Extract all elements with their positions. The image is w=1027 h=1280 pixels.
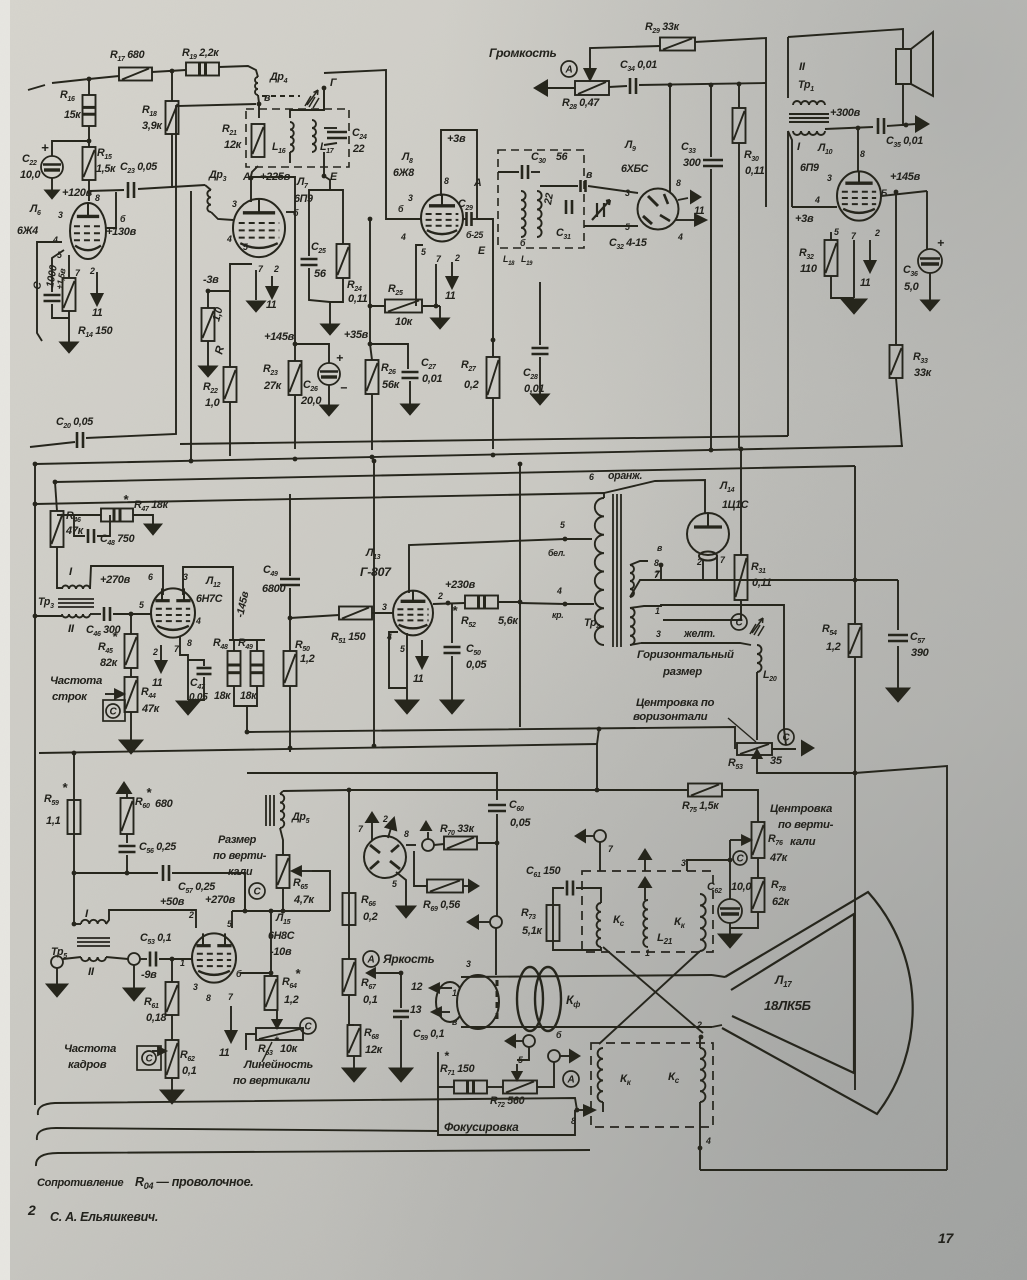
svg-text:1,1: 1,1: [46, 815, 61, 827]
node bus3 left: [33, 502, 38, 507]
capacitor C59: [393, 1011, 409, 1017]
svg-text:по вертикали: по вертикали: [233, 1075, 310, 1087]
wire +3в rail: [792, 206, 837, 208]
svg-text:6Ж8: 6Ж8: [393, 167, 414, 179]
node C33 top: [709, 83, 714, 88]
svg-text:10к: 10к: [395, 316, 414, 328]
transformer Tr1 primary coil: [793, 101, 825, 105]
choke Dr4 coil: [255, 77, 258, 95]
wire top loop II: [788, 29, 903, 49]
wire right outer loop: [855, 766, 947, 1170]
node C59 top: [399, 971, 404, 976]
svg-text:б: б: [120, 214, 126, 224]
wire long L1: [38, 1098, 577, 1115]
svg-text:б: б: [398, 204, 404, 214]
svg-text:C56 0,25: C56 0,25: [139, 841, 177, 855]
node R16/R15: [87, 139, 92, 144]
wire R29 right down: [695, 38, 766, 207]
svg-text:0,18: 0,18: [146, 1012, 167, 1024]
coil L20: [757, 645, 762, 672]
svg-text:3: 3: [382, 602, 387, 612]
capacitor C21: [44, 295, 61, 301]
wire plate loop +3в: [441, 130, 477, 196]
node bus4 x374: [372, 744, 377, 749]
svg-text:воризонтали: воризонтали: [633, 711, 708, 723]
wire C22 to ground: [51, 178, 53, 190]
svg-text:Частота: Частота: [64, 1043, 116, 1055]
wire to R48: [233, 640, 235, 651]
wire V to R21: [258, 104, 260, 118]
wire R67-R68: [349, 995, 354, 1025]
wire Kk lower down: [602, 1102, 604, 1112]
node bus4 R50: [288, 746, 293, 751]
svg-text:56: 56: [556, 151, 568, 163]
wire Dr5 top: [280, 791, 283, 794]
svg-text:2: 2: [382, 814, 388, 824]
wire pin7 down: [716, 556, 718, 580]
wire arrow to term: [427, 832, 429, 839]
svg-text:3: 3: [58, 210, 63, 220]
svg-text:+145в: +145в: [264, 331, 295, 343]
wire C53 term ground: [133, 965, 135, 988]
wire heater line right: [661, 579, 898, 581]
wire C30 right: [531, 171, 540, 173]
wire C48 right: [97, 515, 110, 536]
node pin8 L10: [856, 126, 861, 131]
svg-text:10к: 10к: [280, 1043, 299, 1055]
wire R52 to column: [498, 601, 520, 603]
ground L13: [395, 700, 419, 714]
svg-text:Сопротивление: Сопротивление: [37, 1177, 124, 1189]
wire R21 bottom to A: [251, 166, 258, 176]
wire L17 bottom to E: [323, 152, 325, 176]
wire Tr3 II to left rail: [35, 615, 62, 617]
svg-text:R28 0,47: R28 0,47: [562, 97, 600, 111]
wire term1 left: [512, 1040, 523, 1042]
wire to C28: [539, 282, 541, 345]
wire input stub: [28, 85, 45, 90]
wire term 7 left: [586, 835, 594, 837]
svg-text:4: 4: [400, 232, 406, 242]
wire cross A: [603, 947, 703, 1033]
ground R47: [144, 524, 162, 535]
wire R54 down: [854, 657, 856, 773]
svg-text:8: 8: [654, 558, 659, 568]
svg-text:2: 2: [454, 253, 460, 263]
wire busA: [180, 436, 788, 444]
wire R65 wiper right: [312, 871, 330, 911]
choke Dr5 core: [266, 795, 274, 826]
svg-text:в: в: [586, 169, 593, 181]
arrow pin2 up: [386, 818, 397, 838]
resistor R67: [343, 959, 356, 995]
capacitor C22: [41, 156, 63, 178]
arrow onto R63: [273, 1010, 282, 1028]
wire loop left down: [787, 37, 789, 98]
circle C hcenter: [778, 729, 794, 745]
ground C57: [886, 688, 910, 702]
arrowhead right C35: [915, 115, 930, 133]
wire focus box: [438, 1052, 575, 1135]
circle C vcenter: [733, 851, 747, 865]
wire C62 ground: [729, 923, 731, 934]
wire R26 to bus: [371, 394, 373, 450]
resistor R68: [348, 1025, 361, 1056]
svg-text:1: 1: [645, 948, 650, 958]
CRT tube L17 18ЛК5Б: [722, 892, 913, 1114]
svg-text:C23 0,05: C23 0,05: [120, 161, 158, 175]
transformer Tr3 primary coil: [62, 586, 90, 590]
arrow pin13: [432, 1008, 450, 1017]
wire term1 down: [517, 1047, 529, 1060]
node bus2 x374: [372, 459, 377, 464]
wire pin3 plate loop: [183, 567, 233, 640]
svg-text:18к: 18к: [214, 690, 231, 702]
wire +270в to pin6: [90, 566, 163, 595]
svg-text:11: 11: [266, 299, 277, 311]
svg-text:R29 33к: R29 33к: [645, 21, 680, 35]
node R27 top: [491, 338, 496, 343]
capacitor C26: [318, 363, 340, 385]
svg-text:12к: 12к: [224, 139, 243, 151]
wire pin5 to R65: [232, 910, 330, 912]
coil Kc lower: [700, 1048, 705, 1102]
svg-text:82к: 82к: [100, 657, 119, 669]
wire loop to circle: [784, 729, 786, 745]
svg-text:6: 6: [589, 472, 594, 482]
wire bus1: [35, 446, 903, 464]
svg-text:0,2: 0,2: [464, 379, 479, 391]
wire to C57cap: [74, 872, 158, 874]
svg-text:Г: Г: [330, 77, 337, 89]
ground arrow L9: [690, 190, 702, 205]
resistor R14: [63, 278, 76, 311]
circle C vsize: [249, 883, 265, 899]
svg-text:1,2: 1,2: [300, 653, 315, 665]
node bus1 R30: [739, 447, 744, 452]
wire I winding right: [825, 127, 873, 129]
wire C57 down to pin5: [244, 873, 246, 911]
transformer Tr4 primary coil: [595, 498, 604, 645]
capacitor C48: [88, 529, 94, 543]
ground C62: [718, 934, 742, 948]
resistor R47: [101, 509, 133, 522]
wire C34 to right: [639, 83, 766, 85]
wire I winding left down: [788, 131, 792, 207]
capacitor C61: [567, 881, 573, 896]
svg-text:С: С: [254, 887, 262, 898]
ground C36: [921, 300, 940, 311]
svg-text:Центровка: Центровка: [770, 803, 832, 815]
resistor R63 potentiometer: [256, 1028, 303, 1040]
wire R65 bottom: [282, 888, 284, 911]
node R61 top: [170, 957, 175, 962]
arrowhead yoke anode 2: [638, 876, 653, 888]
coil L21: [643, 900, 648, 947]
resistor R53 potentiometer: [737, 743, 772, 755]
wire to ground L8: [439, 306, 441, 318]
wire -3в to L7: [208, 264, 252, 291]
wire to R47: [57, 514, 101, 516]
svg-text:Е: Е: [330, 171, 338, 183]
node 4 yoke: [698, 1146, 703, 1151]
terminal CRT 2: [548, 1050, 560, 1062]
svg-text:4: 4: [814, 195, 820, 205]
ground L8 cathode: [431, 318, 450, 329]
wire C60 down: [496, 814, 498, 916]
wire to C60: [247, 773, 497, 800]
resistor R54: [849, 624, 862, 657]
ground R62: [160, 1090, 184, 1104]
svg-text:C53 0,1: C53 0,1: [140, 932, 172, 946]
wire pin5 up: [231, 911, 233, 928]
wire C33 top: [710, 85, 712, 157]
svg-text:11: 11: [860, 277, 871, 289]
svg-text:кр.: кр.: [552, 610, 563, 620]
wire L16 top: [290, 110, 312, 118]
wire pin b L6 to C23 node: [106, 192, 116, 228]
wire C20 up to node V: [86, 104, 256, 438]
resistor R30: [733, 108, 746, 143]
wire R66-R67: [348, 925, 350, 959]
svg-text:б: б: [556, 1030, 562, 1040]
svg-text:0,05: 0,05: [466, 659, 487, 671]
svg-text:5: 5: [243, 242, 248, 252]
resistor R24: [337, 244, 350, 278]
node 8 yoke: [575, 1108, 580, 1113]
half arrow 8: [583, 1104, 597, 1117]
ground Tr5: [46, 984, 68, 997]
ground E column: [321, 324, 340, 335]
arrowhead R53: [801, 740, 815, 757]
wire A to grid cap L7: [250, 178, 252, 202]
svg-text:0,05: 0,05: [189, 692, 208, 703]
resistor R15: [83, 147, 96, 180]
wire cathode L12: [180, 637, 188, 700]
svg-text:3: 3: [681, 858, 686, 868]
svg-text:4: 4: [556, 586, 562, 596]
svg-text:11: 11: [413, 673, 424, 685]
wire Tr5 I left: [74, 923, 81, 925]
svg-text:5,1к: 5,1к: [522, 925, 543, 937]
wire bus2: [55, 466, 855, 482]
node A: [249, 176, 254, 181]
wire C47 down: [188, 677, 204, 700]
node cathode L8: [434, 304, 439, 309]
svg-text:А: А: [565, 65, 573, 76]
wire G down: [323, 88, 325, 110]
transformer Tr3 secondary coil: [62, 614, 90, 618]
wire pin7 up: [371, 823, 373, 840]
svg-text:R47 18к: R47 18к: [134, 499, 169, 513]
svg-text:2: 2: [27, 1202, 36, 1218]
speaker: [896, 32, 933, 96]
wire neck top: [461, 975, 712, 977]
ground C50: [440, 700, 464, 714]
tube L8 6Ж8: [421, 194, 463, 241]
svg-text:3: 3: [408, 193, 413, 203]
wire wiper R76: [730, 839, 736, 841]
ground L10: [841, 299, 867, 314]
resistor R51: [339, 607, 372, 620]
capacitor C53: [150, 952, 156, 967]
svg-text:А: А: [567, 1075, 575, 1086]
node Tr5 R59: [72, 922, 77, 927]
trimmer arrow symbol hsize: [750, 618, 764, 636]
trimmer capacitor C32: [592, 200, 610, 220]
node mid wire right: [597, 727, 602, 732]
resistor R71: [454, 1081, 487, 1094]
wire pin4 loop L13: [389, 632, 407, 688]
wire to C25: [309, 190, 330, 256]
arrow cathode L10: [865, 240, 876, 272]
wire to R24: [330, 190, 343, 244]
svg-text:4: 4: [195, 616, 201, 626]
wire R63 left: [246, 1034, 256, 1050]
tube L10 6П9: [837, 171, 881, 220]
wire to R16: [88, 79, 90, 95]
capacitor C35: [878, 118, 884, 134]
dashed box horizontal yoke: [582, 871, 713, 952]
wire to C50: [451, 603, 453, 643]
transformer Tr4 winding 8-7: [630, 565, 634, 597]
node bus1 C33: [709, 448, 714, 453]
capacitor C49: [280, 579, 300, 585]
svg-text:2: 2: [437, 591, 443, 601]
transformer Tr5 primary coil: [81, 920, 106, 924]
svg-text:1,0: 1,0: [205, 397, 221, 409]
svg-text:Центровка по: Центровка по: [636, 697, 715, 709]
svg-text:R70 33к: R70 33к: [440, 823, 475, 837]
svg-text:+35в: +35в: [344, 329, 369, 341]
svg-text:5: 5: [625, 222, 630, 232]
svg-text:1: 1: [655, 606, 660, 616]
node +145в: [293, 342, 298, 347]
wire bus to R31: [740, 448, 742, 555]
resistor R49: [251, 651, 264, 686]
svg-text:кадров: кадров: [68, 1059, 107, 1071]
wire terminal left: [477, 921, 490, 923]
ground C53: [123, 988, 145, 1001]
wire R46 to Tr3: [57, 547, 62, 588]
wire Dr5 to R65: [280, 828, 283, 855]
svg-text:11: 11: [152, 677, 163, 689]
wire C61 left: [553, 888, 564, 905]
svg-text:+270в: +270в: [205, 894, 236, 906]
ground R44: [119, 740, 143, 754]
resistor R45: [125, 634, 138, 668]
arrow pin12: [430, 984, 452, 993]
svg-text:3: 3: [232, 199, 237, 209]
wire R28 to C34: [609, 86, 627, 87]
svg-text:кали: кали: [790, 836, 816, 848]
arrow cathode L8: [447, 262, 458, 288]
svg-text:4: 4: [705, 1136, 711, 1146]
svg-text:300: 300: [683, 157, 702, 169]
tube L7 6П9: [233, 199, 285, 257]
wire C61 right: [576, 888, 601, 903]
arrow onto R72: [513, 1064, 522, 1080]
resistor R48: [228, 651, 241, 686]
wire to C26: [295, 344, 329, 363]
svg-text:3: 3: [625, 188, 630, 198]
arrow wiper R76: [736, 836, 751, 845]
wire anode column: [854, 773, 856, 1090]
svg-text:Размер: Размер: [218, 834, 257, 846]
svg-text:2: 2: [874, 228, 880, 238]
arrowhead term1: [504, 1034, 516, 1049]
arrow onto R28: [585, 56, 596, 80]
svg-text:6: 6: [148, 572, 153, 582]
wire R45-R44: [130, 668, 132, 677]
svg-text:б: б: [520, 238, 526, 248]
ground C26: [320, 405, 339, 416]
ground C22: [45, 190, 60, 199]
svg-text:С. А. Ельяшкевич.: С. А. Ельяшкевич.: [50, 1210, 158, 1224]
trimmer core symbol: [305, 90, 319, 108]
resistor R32: [825, 240, 838, 276]
wire cathode loop left: [37, 242, 62, 341]
svg-text:680: 680: [155, 798, 174, 810]
svg-text:4,7к: 4,7к: [293, 894, 315, 906]
ground thyratron: [396, 906, 416, 918]
wire R18 down: [171, 134, 173, 188]
wire R48 R49 top: [229, 639, 265, 641]
resistor R70: [444, 837, 477, 850]
wire column x374: [373, 461, 375, 744]
wire L9 to gnd arrow: [678, 198, 688, 200]
wire bus2 to R54: [854, 580, 856, 624]
wire +225в column: [251, 177, 295, 344]
resistor R27: [487, 357, 500, 398]
transformer Tr1 secondary coil: [793, 131, 825, 135]
wire pin8 L10: [857, 128, 859, 172]
wire to R18: [171, 71, 173, 101]
resistor R61: [166, 982, 179, 1015]
svg-text:11: 11: [445, 290, 456, 302]
arrowhead output left: [533, 79, 548, 97]
wire pointer R63: [262, 1042, 272, 1062]
svg-text:3: 3: [656, 629, 661, 639]
ground C28: [531, 394, 550, 405]
wire plate L13 to Tr4: [409, 539, 592, 593]
node R25 left: [368, 304, 373, 309]
svg-text:+3в: +3в: [447, 133, 466, 145]
arrowhead R60 top: [116, 781, 133, 794]
coil L19: [537, 191, 542, 237]
svg-text:2: 2: [89, 266, 95, 276]
node bus1 x191: [189, 459, 194, 464]
wire tap 1: [630, 606, 658, 608]
wire to C36: [926, 191, 928, 250]
wire L17-C24 top: [324, 127, 337, 129]
tube L16 thyratron: [364, 836, 406, 878]
svg-text:Частота: Частота: [50, 675, 102, 687]
arrow cathode L12: [156, 645, 167, 672]
wire R71-R72: [487, 1086, 503, 1088]
svg-text:0,01: 0,01: [422, 373, 442, 385]
wire L10 plate right: [881, 191, 927, 196]
capacitor C36: [918, 249, 942, 273]
capacitor C57 390: [888, 635, 908, 641]
wire C36 ground: [929, 273, 931, 300]
svg-text:+3в: +3в: [795, 213, 814, 225]
svg-text:4: 4: [52, 235, 58, 245]
wire long L3: [36, 1150, 590, 1166]
wire pin5 L8 down: [416, 245, 423, 306]
wire arrow to R60: [126, 794, 128, 798]
wire box to pin5 L9: [584, 225, 638, 227]
